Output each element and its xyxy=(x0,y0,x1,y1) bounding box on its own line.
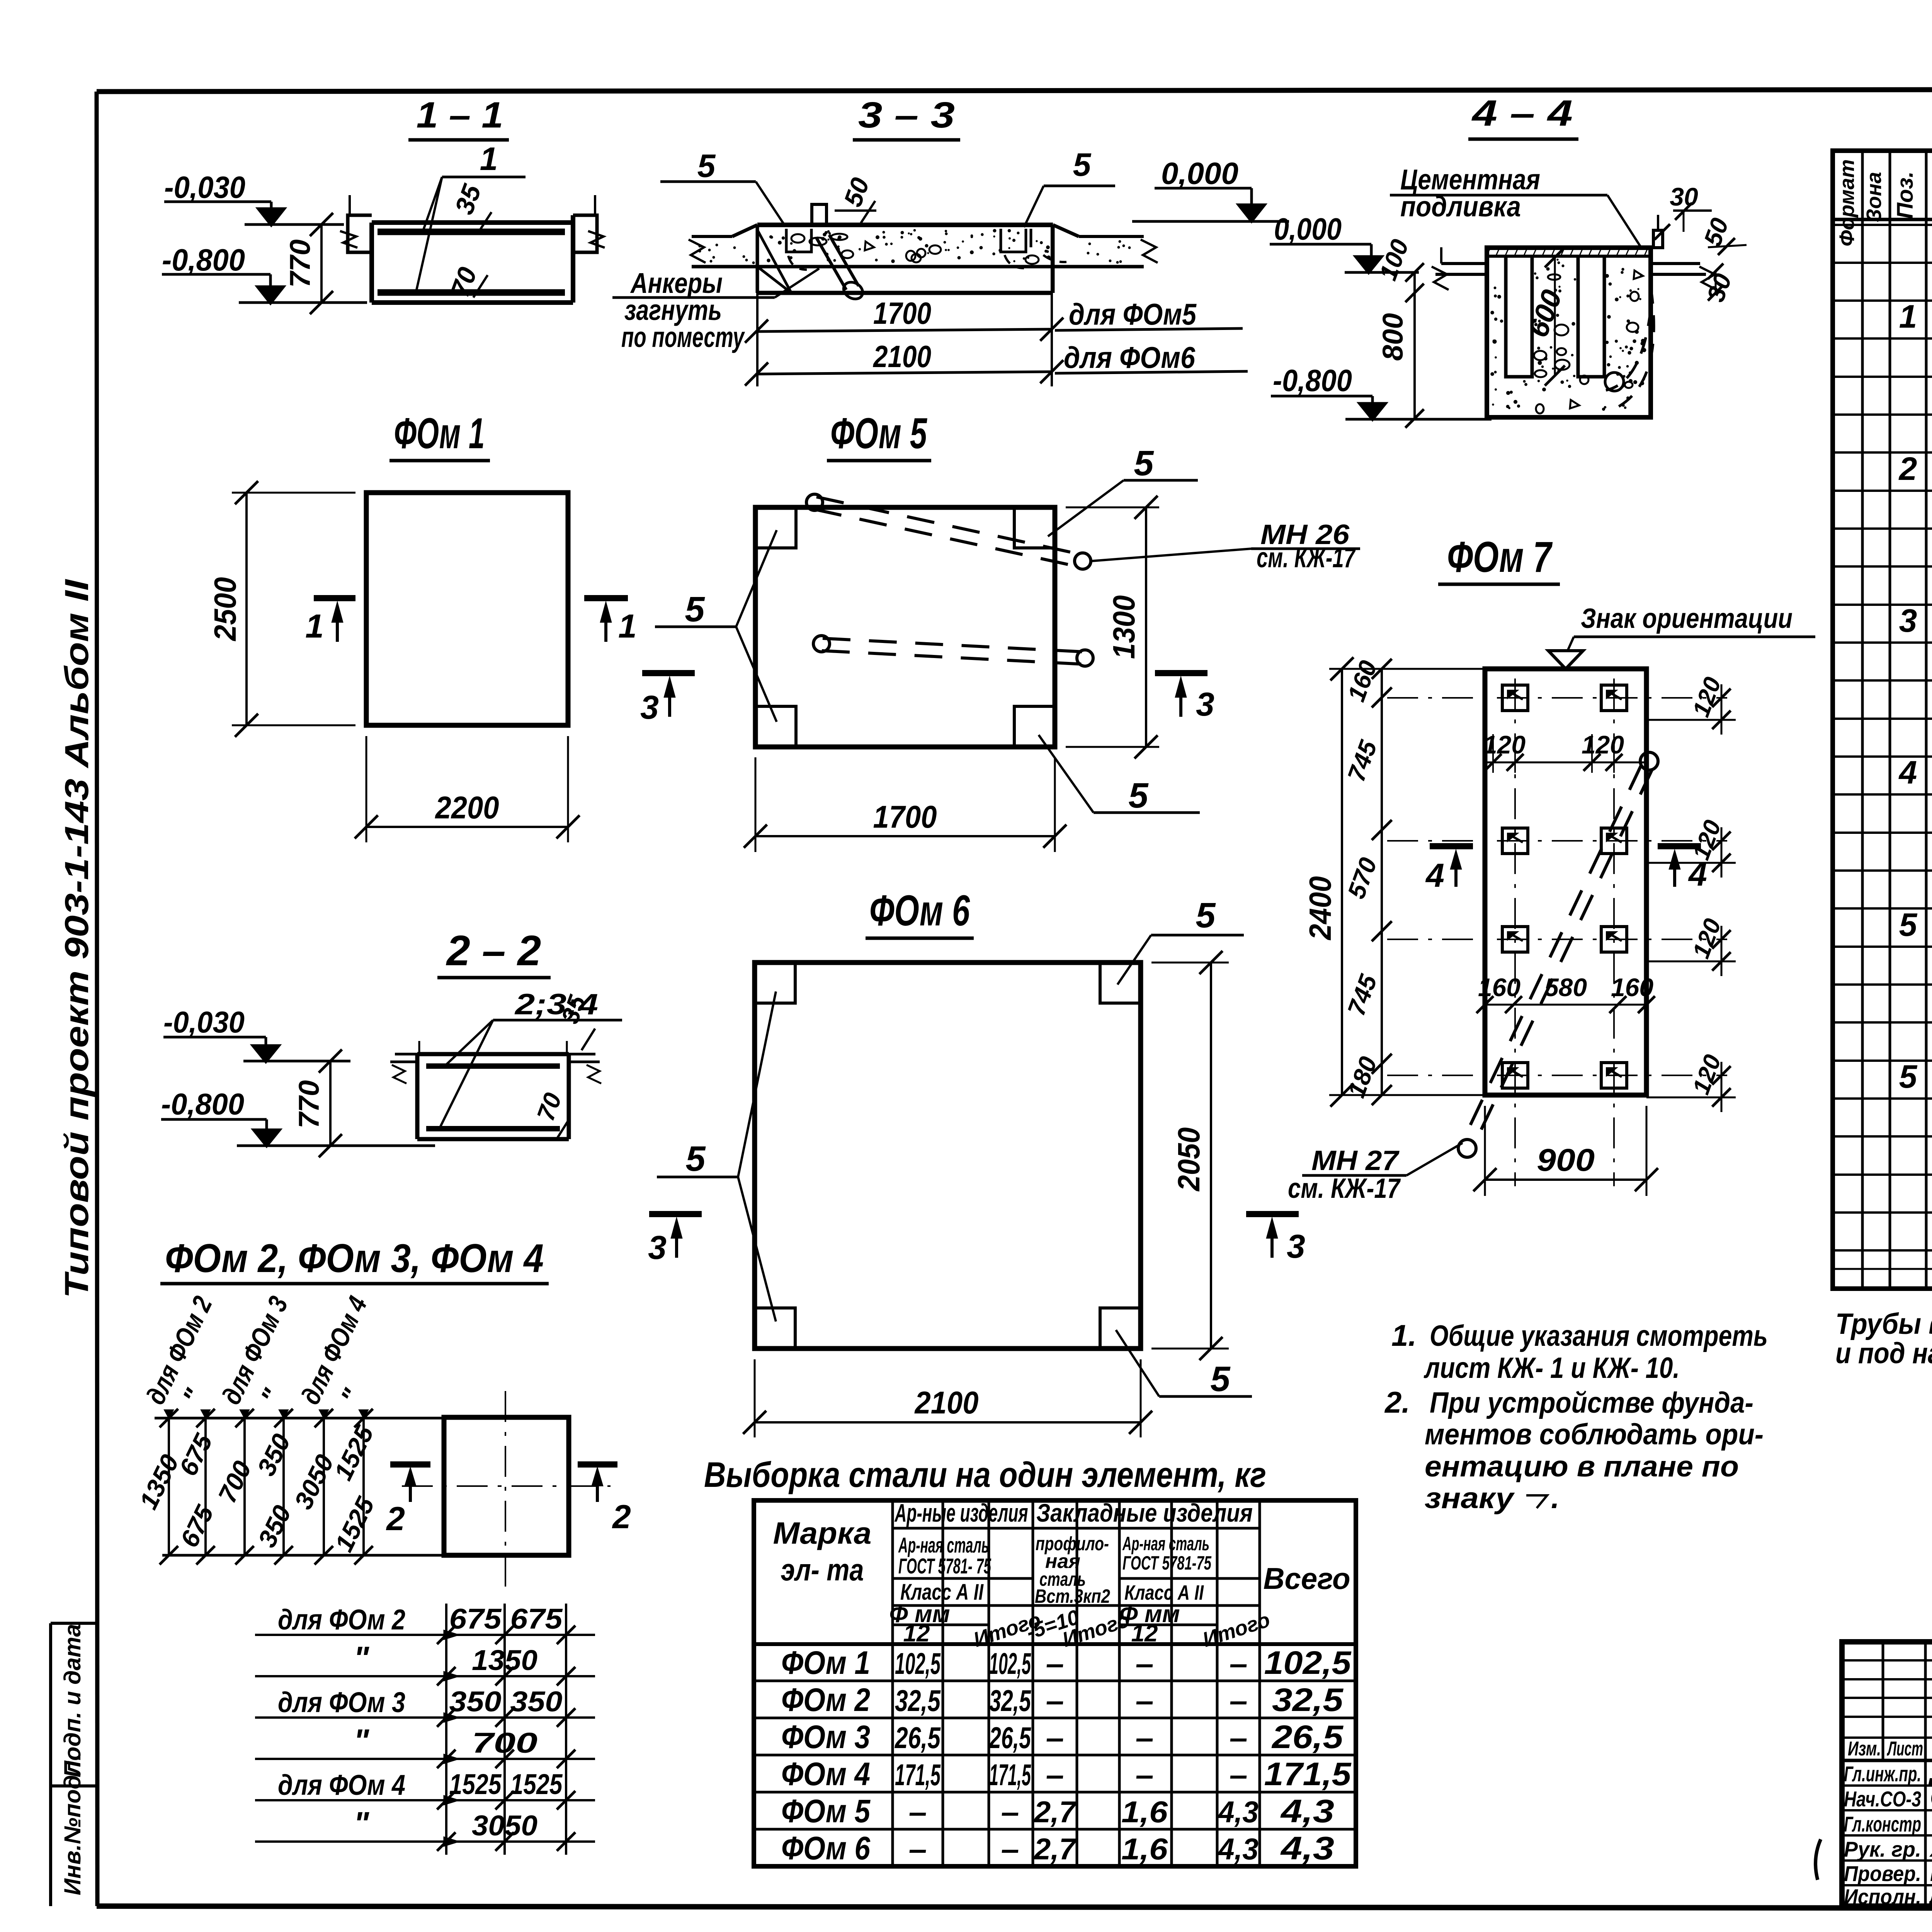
margin handwritten mark xyxy=(1816,1839,1821,1880)
svg-text:ФОм 6: ФОм 6 xyxy=(869,886,970,935)
svg-text:Гл.инж.пр.: Гл.инж.пр. xyxy=(1844,1762,1921,1786)
svg-text:2,7: 2,7 xyxy=(1033,1795,1077,1829)
svg-text:Общие указания смотреть: Общие указания смотреть xyxy=(1430,1320,1768,1352)
svg-text:—: — xyxy=(1136,1646,1153,1680)
svg-text:102,5: 102,5 xyxy=(895,1646,941,1680)
svg-text:При устройстве фунда-: При устройстве фунда- xyxy=(1430,1386,1753,1419)
svg-text:5: 5 xyxy=(1128,776,1149,815)
svg-text:5: 5 xyxy=(1134,444,1154,483)
svg-text:171,5: 171,5 xyxy=(989,1758,1031,1792)
svg-text:—: — xyxy=(1136,1758,1153,1792)
svg-text:ментов соблюдать ори-: ментов соблюдать ори- xyxy=(1425,1418,1764,1451)
section 2-2 bottom rebar xyxy=(426,1126,560,1131)
svg-text:-0,030: -0,030 xyxy=(164,170,245,204)
svg-text:1.: 1. xyxy=(1391,1318,1417,1352)
plan FOm5 section mark 3 left xyxy=(642,670,695,676)
svg-text:770: 770 xyxy=(284,240,316,288)
plan FOm234 fan labels xyxy=(168,1418,170,1555)
svg-text:30: 30 xyxy=(1670,182,1698,211)
svg-text:700: 700 xyxy=(472,1727,537,1759)
svg-text:5: 5 xyxy=(685,1139,706,1179)
svg-text:и под наблюдением электромо: и под наблюдением электромонтажников. xyxy=(1835,1337,1932,1370)
svg-text:лист КЖ- 1 и КЖ- 10.: лист КЖ- 1 и КЖ- 10. xyxy=(1423,1352,1680,1384)
plan FOm5 dim 1700 xyxy=(755,757,757,852)
svg-text:12: 12 xyxy=(1131,1620,1158,1647)
section 1-1 break marks xyxy=(340,231,357,248)
plan FOm7 section mark 4 right xyxy=(1658,843,1701,849)
plan FOm7 dim column 160-745-570-745-180 xyxy=(1381,669,1383,1095)
svg-text:ФОм 5: ФОм 5 xyxy=(781,1793,871,1829)
plan FOm1 outline xyxy=(366,493,568,725)
svg-text:Трубы в фундаментах ФОм 5 и ФО: Трубы в фундаментах ФОм 5 и ФОм 7 заложи… xyxy=(1835,1308,1932,1340)
svg-text:1525: 1525 xyxy=(510,1768,563,1800)
section 4-4 floor slab left xyxy=(1441,262,1487,265)
svg-text:-0,800: -0,800 xyxy=(161,1087,244,1121)
left margin stamp boxes xyxy=(49,1623,52,1906)
plan FOm1 dim 2200 xyxy=(366,736,367,842)
plan FOm234 baseline bottom xyxy=(162,1554,444,1557)
svg-text:для ФОм 2: для ФОм 2 xyxy=(278,1604,405,1636)
svg-text:": " xyxy=(354,1640,369,1676)
svg-text:171,5: 171,5 xyxy=(1264,1756,1352,1792)
svg-text:1: 1 xyxy=(618,608,637,645)
svg-text:1,6: 1,6 xyxy=(1121,1832,1168,1866)
plan FOm234 dim rows xyxy=(255,1634,595,1636)
svg-text:26,5: 26,5 xyxy=(1271,1719,1344,1755)
svg-text:1: 1 xyxy=(305,608,324,645)
svg-text:5: 5 xyxy=(1073,146,1092,183)
plan FOm7 dims 120 120 top xyxy=(1485,762,1646,764)
svg-text:2050: 2050 xyxy=(1172,1128,1206,1192)
section 4-4 concrete stipple xyxy=(1621,271,1624,274)
section 4-4 left slot xyxy=(1506,256,1532,377)
svg-text:32,5: 32,5 xyxy=(1272,1682,1344,1718)
svg-text:26,5: 26,5 xyxy=(989,1721,1032,1755)
svg-text:5: 5 xyxy=(1196,896,1216,935)
svg-text:4: 4 xyxy=(1898,754,1917,791)
title block left columns xyxy=(1882,1642,1884,1760)
plan FOm6 dim 2050 xyxy=(1151,962,1229,964)
svg-text:1: 1 xyxy=(1899,298,1917,335)
svg-text:3: 3 xyxy=(640,689,659,726)
svg-text:Закладные изделия: Закладные изделия xyxy=(1036,1498,1253,1527)
svg-text:—: — xyxy=(909,1795,926,1829)
plan FOm5 dim 1300 xyxy=(1066,507,1159,509)
steel table column lines xyxy=(891,1500,894,1866)
section 2-2 trough outline xyxy=(417,1052,569,1056)
spec table row lines xyxy=(1833,262,1932,264)
svg-text:1525: 1525 xyxy=(449,1768,502,1800)
svg-text:120: 120 xyxy=(1582,730,1624,759)
svg-text:2500: 2500 xyxy=(208,577,242,642)
steel table header lines xyxy=(893,1527,1260,1530)
svg-text:—: — xyxy=(1046,1758,1063,1792)
section 3-3 pipe stub on top xyxy=(812,204,827,225)
plan FOm234 section mark 2 right xyxy=(578,1461,617,1468)
svg-text:1,6: 1,6 xyxy=(1121,1795,1168,1829)
svg-text:2400: 2400 xyxy=(1303,876,1337,941)
svg-text:": " xyxy=(354,1723,369,1759)
svg-text:12: 12 xyxy=(903,1620,930,1647)
svg-text:3: 3 xyxy=(1287,1228,1305,1265)
plan FOm234 baseline top xyxy=(155,1417,444,1420)
svg-text:5: 5 xyxy=(685,590,705,629)
svg-text:ФОм 1: ФОм 1 xyxy=(781,1645,870,1681)
svg-text:2100: 2100 xyxy=(914,1385,979,1420)
svg-text:для ФОм5: для ФОм5 xyxy=(1069,297,1197,331)
svg-text:2200: 2200 xyxy=(435,790,499,825)
plan FOm1 section mark 1 right xyxy=(584,595,628,601)
svg-text:для ФОм 3: для ФОм 3 xyxy=(278,1686,405,1718)
section 3-3 slab outline xyxy=(757,223,1053,227)
svg-text:см. КЖ-17: см. КЖ-17 xyxy=(1257,543,1356,573)
svg-text:Гл.констр: Гл.констр xyxy=(1844,1812,1921,1836)
svg-text:0,000: 0,000 xyxy=(1274,212,1342,246)
plan FOm7 dim 900 xyxy=(1484,1106,1486,1196)
plan FOm7 centerlines xyxy=(1387,697,1727,699)
svg-text:0,000: 0,000 xyxy=(1161,156,1238,190)
svg-text:4: 4 xyxy=(1425,857,1444,894)
svg-text:Лист: Лист xyxy=(1886,1738,1923,1760)
svg-text:-0,800: -0,800 xyxy=(162,243,245,277)
svg-text:102,5: 102,5 xyxy=(1264,1645,1352,1681)
plan FOm7 outline xyxy=(1485,669,1646,1095)
svg-text:350: 350 xyxy=(510,1685,563,1718)
plan FOm5 embedded pipe lower xyxy=(822,651,1084,664)
svg-text:2: 2 xyxy=(386,1500,405,1537)
svg-text:ФОм 1: ФОм 1 xyxy=(394,409,485,457)
section 3-3 embedded anchor left xyxy=(786,229,811,252)
svg-text:ФОм 6: ФОм 6 xyxy=(781,1830,871,1866)
plan FOm7 dims 160 580 160 middle xyxy=(1485,1004,1646,1006)
plan FOm5 section mark 3 right xyxy=(1155,670,1207,676)
plan FOm7 dim 2400 overall xyxy=(1341,669,1343,1095)
svg-text:—: — xyxy=(1230,1721,1247,1755)
svg-text:120: 120 xyxy=(1483,730,1526,759)
svg-text:Провер.: Провер. xyxy=(1844,1861,1921,1886)
title block outer frame xyxy=(1842,1642,1932,1906)
section 3-3 break marks xyxy=(689,240,706,263)
svg-text:эл- та: эл- та xyxy=(781,1553,864,1587)
section 4-4 right slot xyxy=(1578,256,1604,377)
svg-text:3: 3 xyxy=(648,1229,667,1266)
svg-text:900: 900 xyxy=(1537,1143,1595,1178)
plan FOm5 corner plates xyxy=(755,507,796,548)
section 1-1 left flange xyxy=(348,215,372,252)
svg-text:800: 800 xyxy=(1377,313,1409,361)
svg-text:2,7: 2,7 xyxy=(1033,1832,1077,1866)
svg-text:2: 2 xyxy=(612,1498,631,1536)
svg-text:ФОм 2, ФОм 3, ФОм 4: ФОм 2, ФОм 3, ФОм 4 xyxy=(165,1236,544,1281)
svg-text:3050: 3050 xyxy=(472,1810,537,1842)
title block header row xyxy=(1842,1759,1932,1762)
svg-text:350: 350 xyxy=(449,1685,502,1718)
plan FOm5 outline xyxy=(755,507,1055,747)
svg-text:для ФОм 4: для ФОм 4 xyxy=(278,1769,405,1801)
svg-text:5: 5 xyxy=(1899,906,1918,943)
svg-text:МН 27: МН 27 xyxy=(1311,1145,1400,1176)
plan FOm234 dim table verticals xyxy=(445,1604,447,1855)
plan FOm7 orientation triangle xyxy=(1548,651,1583,669)
svg-text:Выборка стали на один элемент,: Выборка стали на один элемент, кг xyxy=(704,1455,1266,1495)
svg-text:Изм.: Изм. xyxy=(1848,1738,1881,1760)
svg-text:по поместу: по поместу xyxy=(621,321,745,353)
plan FOm5 embedded pipe MN26 upper xyxy=(814,509,1081,567)
section 4-4 dim 800 xyxy=(1413,294,1416,419)
section 2-2 dim 770 xyxy=(329,1061,332,1146)
svg-text:5: 5 xyxy=(1210,1359,1231,1399)
svg-text:160: 160 xyxy=(1478,973,1520,1002)
svg-text:—: — xyxy=(1136,1721,1153,1755)
svg-text:—: — xyxy=(1002,1795,1018,1829)
svg-text:—: — xyxy=(1230,1684,1247,1718)
svg-text:Формат: Формат xyxy=(1835,159,1859,246)
svg-text:1: 1 xyxy=(480,141,498,177)
svg-text:2 – 2: 2 – 2 xyxy=(446,927,541,975)
svg-text:1 – 1: 1 – 1 xyxy=(417,95,503,136)
svg-text:Поз.: Поз. xyxy=(1893,172,1918,219)
svg-text:1700: 1700 xyxy=(873,799,937,835)
svg-text:ФОм 2: ФОм 2 xyxy=(781,1682,870,1718)
section 1-1 dim 770 xyxy=(320,224,323,303)
section 3-3 anchor bend left xyxy=(757,230,791,293)
svg-text:—: — xyxy=(1230,1758,1247,1792)
section 4-4 floor slab right xyxy=(1651,262,1700,265)
svg-text:Исполн.: Исполн. xyxy=(1844,1884,1921,1909)
svg-text:—: — xyxy=(1046,1646,1063,1680)
svg-text:4,3: 4,3 xyxy=(1280,1830,1334,1866)
section 1-1 foundation trough outline xyxy=(372,220,573,225)
svg-text:160: 160 xyxy=(1611,973,1653,1002)
svg-text:—: — xyxy=(1136,1684,1153,1718)
spec table extra short line near bottom xyxy=(1833,1268,1932,1270)
section 4-4 anchor pin top right xyxy=(1653,230,1663,248)
spec table header rule xyxy=(1833,218,1932,221)
svg-text:.: . xyxy=(1551,1481,1560,1515)
section 3-3 inclined pipe xyxy=(816,237,846,290)
svg-text:—: — xyxy=(1046,1684,1063,1718)
svg-text:знаку: знаку xyxy=(1425,1482,1515,1515)
title block revision rows xyxy=(1842,1659,1932,1662)
svg-text:675: 675 xyxy=(449,1603,502,1635)
plan FOm1 section mark 1 left xyxy=(314,595,355,601)
note triangle symbol xyxy=(1526,1495,1547,1508)
svg-text:3: 3 xyxy=(1899,602,1917,639)
plan FOm234 section mark 2 left xyxy=(390,1461,430,1468)
svg-text:4,3: 4,3 xyxy=(1218,1832,1259,1866)
svg-text:ГОСТ 5781- 75: ГОСТ 5781- 75 xyxy=(898,1554,992,1578)
svg-text:Всего: Всего xyxy=(1264,1561,1350,1595)
svg-text:—: — xyxy=(909,1832,926,1866)
section 1-1 top rebar xyxy=(378,229,565,235)
plan FOm7 embedded plates xyxy=(1502,685,1528,711)
plan FOm1 dim 2500 xyxy=(232,492,355,494)
svg-text:1700: 1700 xyxy=(873,296,931,330)
svg-text:": " xyxy=(354,1805,369,1842)
spec table column lines xyxy=(1861,151,1864,1289)
svg-text:ФОм 7: ФОм 7 xyxy=(1447,533,1553,581)
section 3-3 dim 2100 for FOm6 xyxy=(757,372,1052,374)
svg-text:32,5: 32,5 xyxy=(895,1684,941,1718)
svg-text:Ар-ная сталь: Ар-ная сталь xyxy=(1122,1533,1209,1554)
svg-text:32,5: 32,5 xyxy=(989,1684,1031,1718)
section 4-4 conduit dashed curve xyxy=(1606,309,1651,390)
svg-text:26,5: 26,5 xyxy=(894,1721,941,1755)
sheet frame xyxy=(97,89,1932,92)
steel table outer frame xyxy=(754,1500,1356,1866)
section 2-2 top rebar xyxy=(426,1063,560,1069)
section 1-1 right flange xyxy=(573,215,597,252)
svg-text:—: — xyxy=(1230,1646,1247,1680)
svg-text:2100: 2100 xyxy=(872,339,931,374)
plan FOm7 section mark 4 left xyxy=(1430,843,1473,849)
svg-text:5: 5 xyxy=(697,148,716,184)
svg-text:675: 675 xyxy=(510,1603,563,1635)
svg-text:см. КЖ-17: см. КЖ-17 xyxy=(1288,1173,1401,1204)
section 4-4 foundation block xyxy=(1487,248,1651,417)
svg-text:ФОм 4: ФОм 4 xyxy=(781,1756,870,1792)
plan FOm6 outline xyxy=(755,963,1141,1349)
section 3-3 embedded anchor right xyxy=(1001,229,1026,252)
svg-text:4 – 4: 4 – 4 xyxy=(1471,93,1573,134)
svg-text:Рук. гр.: Рук. гр. xyxy=(1844,1837,1921,1861)
svg-text:3 – 3: 3 – 3 xyxy=(858,95,955,136)
svg-text:Вст.3кп2: Вст.3кп2 xyxy=(1035,1585,1110,1607)
svg-text:Ар-ные изделия: Ар-ные изделия xyxy=(894,1498,1028,1527)
svg-text:Инв.№подл.: Инв.№подл. xyxy=(60,1754,85,1895)
section 3-3 concrete stipple xyxy=(945,230,947,232)
svg-text:2: 2 xyxy=(1898,451,1917,487)
svg-text:—: — xyxy=(1002,1832,1018,1866)
plan FOm6 section mark 3 right xyxy=(1246,1211,1299,1217)
svg-text:для ФОм6: для ФОм6 xyxy=(1064,340,1196,374)
svg-text:5: 5 xyxy=(1899,1058,1918,1095)
svg-text:4,3: 4,3 xyxy=(1218,1795,1259,1829)
steel table row lines xyxy=(754,1680,1356,1682)
section 2-2 floor slab edges xyxy=(395,1053,417,1056)
plan FOm6 section mark 3 left xyxy=(649,1211,702,1217)
section 3-3 dim 1700 for FOm5 xyxy=(756,267,759,386)
svg-text:3: 3 xyxy=(1196,686,1214,723)
svg-text:102,5: 102,5 xyxy=(989,1646,1031,1680)
svg-text:Знак ориентации: Знак ориентации xyxy=(1581,603,1793,634)
plan FOm6 corner plates xyxy=(755,963,795,1003)
plan FOm7 dims 120 at rows xyxy=(1646,719,1736,721)
plan FOm6 dim 2100 xyxy=(754,1359,756,1437)
svg-text:Типовой проект 903-1-143 А: Типовой проект 903-1-143 Альбом II xyxy=(58,578,95,1298)
svg-text:—: — xyxy=(1046,1721,1063,1755)
svg-text:4,3: 4,3 xyxy=(1280,1793,1334,1829)
svg-text:-0,030: -0,030 xyxy=(163,1005,245,1039)
plan FOm234 square outline xyxy=(444,1417,569,1555)
section 1-1 bottom rebar xyxy=(378,289,565,296)
section 4-4 grout cap xyxy=(1487,255,1651,258)
svg-text:ФОм 3: ФОм 3 xyxy=(781,1719,870,1755)
plan FOm234 centerline vertical xyxy=(505,1391,506,1588)
svg-text:4: 4 xyxy=(1688,856,1707,893)
plan FOm234 centerline horizontal xyxy=(402,1485,611,1487)
svg-text:ентацию в плане по: ентацию в плане по xyxy=(1425,1450,1739,1483)
spec table outer frame xyxy=(1833,151,1932,1289)
svg-text:2.: 2. xyxy=(1384,1385,1410,1419)
svg-text:Нач.СО-3: Нач.СО-3 xyxy=(1844,1787,1921,1811)
svg-text:ФОм 5: ФОм 5 xyxy=(830,409,927,457)
svg-text:1350: 1350 xyxy=(472,1644,537,1676)
title block staff rows xyxy=(1842,1784,1932,1787)
plan FOm7 embedded pipe dashed xyxy=(1463,765,1641,1141)
svg-text:ГОСТ 5781-75: ГОСТ 5781-75 xyxy=(1122,1552,1212,1574)
svg-text:770: 770 xyxy=(293,1080,325,1129)
svg-text:Зона: Зона xyxy=(1862,172,1886,222)
svg-text:-0,800: -0,800 xyxy=(1273,363,1352,398)
svg-text:171,5: 171,5 xyxy=(895,1758,941,1792)
svg-text:Марка: Марка xyxy=(773,1516,872,1550)
svg-text:580: 580 xyxy=(1544,973,1587,1002)
svg-text:1300: 1300 xyxy=(1107,595,1141,659)
